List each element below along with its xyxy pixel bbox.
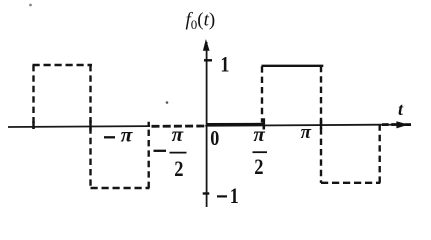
- label -pi/2 fraction bar: [170, 152, 187, 154]
- wave: solid top horizontal pi/2..pi at +1: [262, 65, 324, 67]
- svg-text:1: 1: [230, 184, 239, 208]
- x axis arrowhead: [396, 121, 408, 128]
- wave: dashed bottom horizontal pi..3pi/2 at -1: [321, 182, 380, 184]
- wave: solid zero segment 0..pi/2 on axis: [207, 123, 265, 126]
- y axis arrowhead: [203, 39, 210, 51]
- label -1 minus: [217, 195, 227, 197]
- tick +1: [204, 59, 212, 61]
- wave: dashed vertical at pi: [320, 66, 322, 183]
- svg-text:f0(t): f0(t): [186, 10, 216, 33]
- wave: dashed vertical at pi/2: [261, 66, 263, 122]
- tick crossing axis at -3pi/2: [32, 121, 34, 129]
- stray speck top-left: [29, 4, 32, 7]
- tick -1: [203, 192, 210, 194]
- svg-text:π: π: [121, 122, 134, 146]
- label -pi/2 minus sign: [154, 150, 167, 152]
- label pi/2 fraction bar: [253, 151, 268, 153]
- tick at pi/2 crossing axis: [262, 118, 265, 129]
- svg-text:1: 1: [220, 53, 229, 77]
- svg-text:2: 2: [254, 156, 263, 180]
- wave: dashed top horizontal -3pi/2..-pi at +1: [33, 64, 93, 66]
- wave: dashed vertical at -3pi/2: [32, 65, 34, 129]
- wave: dashed zero segment -pi/2..0 on axis: [152, 125, 207, 128]
- wave: dashed bottom horizontal -pi..-pi/2 at -1: [91, 187, 150, 189]
- svg-text:π: π: [301, 122, 312, 143]
- wave: dashed zero segment 3pi/2.. on axis: [382, 123, 399, 126]
- x axis arrow tail nub: [405, 123, 412, 126]
- tick crossing axis at -pi: [89, 120, 91, 131]
- label -pi minus: [104, 136, 115, 138]
- y axis: [206, 42, 208, 207]
- wave: dashed vertical at -pi/2: [147, 122, 149, 188]
- svg-text:0: 0: [210, 127, 219, 151]
- wave: dashed vertical at -pi: [89, 65, 91, 189]
- white mask hiding thin axis between -pi/2 and 0: [150, 122, 205, 131]
- wave: dashed vertical at 3pi/2: [379, 122, 381, 183]
- tick crossing axis at pi: [320, 120, 322, 129]
- x axis (t axis): [8, 125, 400, 127]
- stray speck center: [166, 101, 169, 104]
- svg-text:2: 2: [174, 157, 183, 181]
